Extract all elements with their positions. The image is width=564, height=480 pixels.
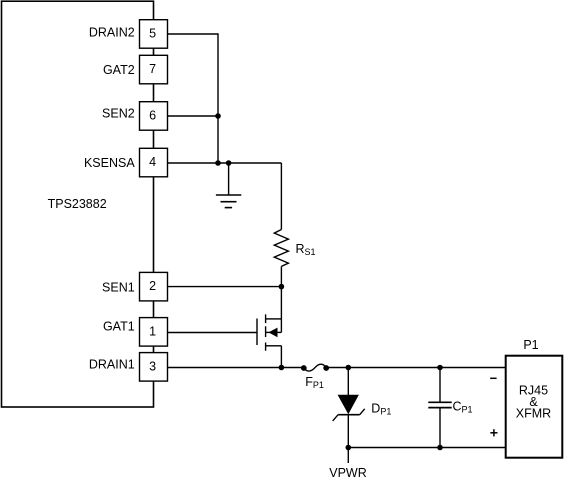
svg-text:GAT1: GAT1 bbox=[103, 320, 135, 334]
svg-text:5: 5 bbox=[149, 27, 156, 41]
svg-text:3: 3 bbox=[149, 359, 156, 373]
svg-text:DRAIN2: DRAIN2 bbox=[89, 25, 135, 39]
svg-text:VPWR: VPWR bbox=[329, 466, 367, 480]
svg-text:4: 4 bbox=[149, 155, 156, 169]
svg-text:KSENSA: KSENSA bbox=[84, 156, 135, 170]
svg-text:GAT2: GAT2 bbox=[103, 63, 135, 77]
svg-text:TPS23882: TPS23882 bbox=[48, 197, 107, 211]
svg-text:P1: P1 bbox=[523, 338, 538, 352]
svg-text:7: 7 bbox=[149, 62, 156, 76]
svg-text:SEN2: SEN2 bbox=[102, 107, 135, 121]
svg-text:6: 6 bbox=[149, 109, 156, 123]
svg-text:SEN1: SEN1 bbox=[102, 280, 135, 294]
svg-text:DRAIN1: DRAIN1 bbox=[89, 358, 135, 372]
svg-text:2: 2 bbox=[149, 279, 156, 293]
svg-text:XFMR: XFMR bbox=[516, 406, 551, 420]
svg-text:1: 1 bbox=[149, 324, 156, 338]
